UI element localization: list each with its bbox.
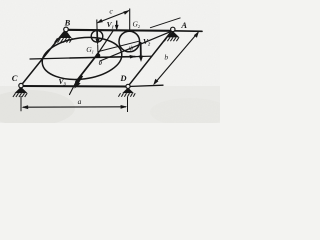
axis line through O bbox=[30, 58, 70, 59]
svg-text:A: A bbox=[180, 20, 187, 30]
disc G1 bbox=[91, 31, 103, 43]
svg-text:D: D bbox=[119, 73, 126, 83]
support D (pin, triangle, hatching) bbox=[118, 84, 135, 96]
plate left edge BC bbox=[21, 30, 66, 86]
support C (pin, triangle, hatching) bbox=[13, 83, 27, 97]
svg-text:B: B bbox=[64, 18, 71, 28]
disc G2 bbox=[119, 31, 140, 52]
support B (pin, triangle, hatching) bbox=[55, 27, 73, 42]
svg-text:a: a bbox=[78, 97, 82, 106]
support A (pin, triangle, hatching) bbox=[164, 27, 179, 41]
extension line at G2 for c bbox=[129, 9, 131, 31]
dimension a line with arrows and extensions bbox=[21, 96, 128, 112]
svg-text:b: b bbox=[164, 53, 168, 62]
dimension b line with arrows bbox=[153, 31, 199, 85]
vector V2 arrow bbox=[139, 42, 143, 62]
vector V3 arrowhead bbox=[75, 76, 83, 89]
arrowhead of axis vector bbox=[130, 55, 137, 59]
line O to G2 bbox=[99, 41, 140, 51]
leader line to label A bbox=[150, 18, 181, 28]
dimension c line with arrows bbox=[97, 10, 130, 23]
ellipse (disc on plate) bbox=[40, 33, 124, 84]
node O junction dot bbox=[96, 53, 101, 58]
svg-text:C: C bbox=[12, 73, 18, 83]
arrow inside disc G1 bbox=[96, 20, 100, 55]
vector V1 arrow bbox=[115, 21, 119, 31]
plate top edge BA with extension right of A bbox=[65, 30, 173, 31]
line O to A bbox=[100, 31, 173, 61]
plate bottom edge CD with extension right of D bbox=[21, 85, 128, 88]
velocity line Vk through O bbox=[98, 30, 114, 53]
svg-text:ψ: ψ bbox=[129, 44, 134, 52]
plate right edge AD bbox=[128, 30, 173, 86]
paper background bbox=[0, 0, 220, 123]
